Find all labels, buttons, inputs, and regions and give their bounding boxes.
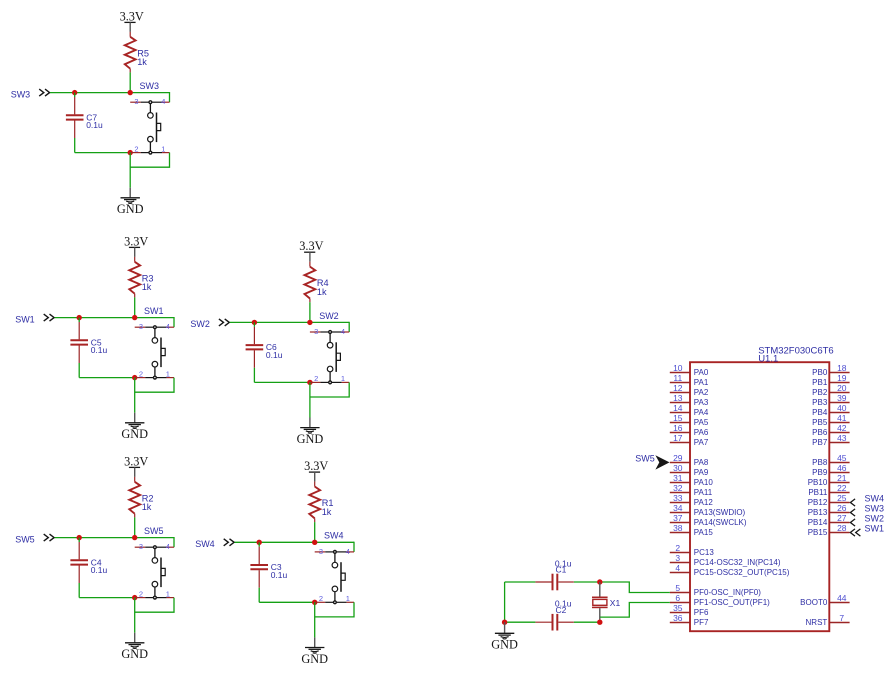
wire R2 to node SW5: [134, 517, 136, 537]
power 3.3V (SW2 pull-up): [299, 239, 323, 262]
svg-text:16: 16: [673, 423, 683, 433]
svg-text:PB14: PB14: [808, 518, 828, 527]
wire R5 to node SW3: [129, 72, 131, 92]
svg-text:1: 1: [166, 369, 170, 378]
svg-text:SW5: SW5: [15, 534, 35, 544]
wire OSC_IN to PF0: [600, 582, 670, 593]
pin 21 PB10: [808, 473, 850, 487]
pin 46 PB9: [812, 463, 849, 477]
svg-text:3.3V: 3.3V: [120, 9, 144, 23]
ground GND (SW4 block): [301, 637, 328, 666]
svg-text:3: 3: [319, 547, 323, 556]
svg-text:13: 13: [673, 393, 683, 403]
resistor R4 1k: [305, 262, 329, 303]
junction at switch SW5 pin 2: [132, 595, 137, 600]
pin 29 PA8: [670, 453, 709, 467]
wire OSC_OUT to PF1: [600, 603, 670, 618]
pin 32 PA11: [670, 483, 713, 497]
svg-text:PC14-OSC32_IN(PC14): PC14-OSC32_IN(PC14): [694, 558, 781, 567]
svg-text:GND: GND: [117, 202, 144, 216]
svg-text:19: 19: [837, 373, 847, 383]
svg-text:3.3V: 3.3V: [124, 454, 148, 468]
svg-text:39: 39: [837, 393, 847, 403]
svg-text:PB5: PB5: [812, 418, 828, 427]
pin 19 PB1: [812, 373, 849, 387]
svg-text:1: 1: [341, 374, 345, 383]
svg-text:PB7: PB7: [812, 438, 828, 447]
junction at switch SW1 pin 2: [132, 375, 137, 380]
svg-text:PB12: PB12: [808, 498, 828, 507]
svg-text:PA12: PA12: [694, 498, 714, 507]
ic U1 STM32F030C6T6: [690, 346, 834, 632]
wire switch SW2 pin 1 loop to ground: [310, 382, 349, 417]
svg-text:GND: GND: [121, 647, 148, 661]
svg-text:PA4: PA4: [694, 408, 709, 417]
svg-text:GND: GND: [297, 432, 324, 446]
capacitor C7 0.1u: [66, 93, 103, 153]
pin 15 PA5: [670, 413, 709, 427]
crystal X1: [592, 582, 620, 622]
svg-text:X1: X1: [610, 598, 621, 608]
svg-text:SW2: SW2: [865, 514, 885, 524]
wire R3 to node SW1: [134, 297, 136, 317]
svg-text:3.3V: 3.3V: [124, 234, 148, 248]
svg-text:26: 26: [837, 503, 847, 513]
svg-text:SW4: SW4: [865, 494, 885, 504]
pin 22 PB11: [808, 483, 849, 497]
svg-text:41: 41: [837, 413, 847, 423]
junction node SW1 at capacitor: [77, 315, 82, 320]
svg-text:PB6: PB6: [812, 428, 828, 437]
pin 4 PC15-OSC32_OUT(PC15): [670, 563, 790, 577]
svg-text:2: 2: [139, 369, 143, 378]
svg-text:PA14(SWCLK): PA14(SWCLK): [694, 518, 747, 527]
pin 28 PB15: [808, 523, 850, 537]
global label SW1 (input): [15, 314, 54, 324]
svg-text:SW3: SW3: [865, 504, 885, 514]
global label SW1 (at PB15): [850, 524, 884, 537]
wire node SW1 horizontal: [55, 317, 175, 327]
svg-text:27: 27: [837, 513, 847, 523]
junction node SW1 at resistor: [132, 315, 137, 320]
junction OSC_IN: [597, 579, 602, 584]
junction node SW5 at resistor: [132, 535, 137, 540]
svg-text:PF6: PF6: [694, 608, 709, 617]
global label SW5 (at PA8): [635, 454, 669, 470]
pin 16 PA6: [670, 423, 709, 437]
pin 6 PF1-OSC_OUT(PF1): [670, 593, 770, 607]
svg-text:4: 4: [166, 542, 170, 551]
svg-text:40: 40: [837, 403, 847, 413]
svg-text:PB15: PB15: [808, 528, 828, 537]
pin 17 PA7: [670, 433, 709, 447]
wire node SW2 horizontal: [230, 322, 350, 332]
pin 41 PB5: [812, 413, 849, 427]
svg-text:38: 38: [673, 523, 683, 533]
svg-text:46: 46: [837, 463, 847, 473]
svg-text:21: 21: [837, 473, 847, 483]
power 3.3V (SW4 pull-up): [304, 459, 328, 482]
svg-text:14: 14: [673, 403, 683, 413]
switch SW5 push button: [135, 526, 174, 600]
svg-text:36: 36: [673, 613, 683, 623]
svg-text:0.1u: 0.1u: [91, 345, 108, 355]
svg-text:15: 15: [673, 413, 683, 423]
svg-text:PB2: PB2: [812, 388, 828, 397]
pin 31 PA10: [670, 473, 714, 487]
svg-text:11: 11: [673, 373, 682, 383]
svg-text:3.3V: 3.3V: [304, 459, 328, 473]
junction node SW4 at resistor: [312, 540, 317, 545]
svg-text:1k: 1k: [142, 282, 152, 292]
svg-text:32: 32: [673, 483, 683, 493]
pin 25 PB12: [808, 493, 850, 507]
junction node SW3 at resistor: [128, 90, 133, 95]
resistor R1 1k: [309, 482, 333, 522]
svg-text:PF0-OSC_IN(PF0): PF0-OSC_IN(PF0): [694, 588, 761, 597]
svg-text:42: 42: [837, 423, 847, 433]
svg-text:PA0: PA0: [694, 368, 709, 377]
svg-text:SW1: SW1: [15, 314, 35, 324]
pin 45 PB8: [812, 453, 849, 467]
svg-text:31: 31: [673, 473, 683, 483]
pin 2 PC13: [670, 543, 715, 557]
pin 44 BOOT0: [800, 593, 849, 607]
capacitor C1 0.1u: [535, 558, 573, 590]
svg-text:4: 4: [341, 327, 345, 336]
svg-text:3: 3: [139, 322, 143, 331]
power 3.3V (SW5 pull-up): [124, 454, 148, 477]
junction node SW4 at capacitor: [257, 540, 262, 545]
svg-text:PB3: PB3: [812, 398, 828, 407]
wire switch SW4 pin 1 loop to ground: [315, 602, 354, 637]
svg-text:25: 25: [837, 493, 847, 503]
power 3.3V (SW3 pull-up): [120, 9, 144, 32]
wire switch SW3 pin 1 loop to ground: [130, 153, 169, 188]
svg-text:3.3V: 3.3V: [299, 239, 323, 253]
pin 30 PA9: [670, 463, 709, 477]
junction node SW2 at capacitor: [252, 320, 257, 325]
global label SW3 (at PB13): [850, 504, 884, 517]
global label SW4 (input): [195, 539, 234, 549]
pin 40 PB4: [812, 403, 849, 417]
svg-text:PA6: PA6: [694, 428, 709, 437]
svg-text:5: 5: [675, 583, 680, 593]
svg-text:PB4: PB4: [812, 408, 828, 417]
power 3.3V (SW1 pull-up): [124, 234, 148, 257]
svg-text:1k: 1k: [142, 502, 152, 512]
wire C3 to switch pin 2: [259, 601, 315, 603]
svg-text:SW4: SW4: [324, 531, 344, 541]
wire C2 row: [505, 621, 600, 623]
pin 39 PB3: [812, 393, 849, 407]
svg-text:28: 28: [837, 523, 847, 533]
svg-text:PA7: PA7: [694, 438, 709, 447]
pin 33 PA12: [670, 493, 714, 507]
svg-text:0.1u: 0.1u: [271, 570, 288, 580]
svg-text:C1: C1: [556, 565, 567, 575]
svg-text:1k: 1k: [317, 287, 327, 297]
svg-text:BOOT0: BOOT0: [800, 598, 828, 607]
svg-text:PF1-OSC_OUT(PF1): PF1-OSC_OUT(PF1): [694, 598, 770, 607]
switch SW3 push button: [130, 81, 169, 155]
svg-text:PB9: PB9: [812, 468, 828, 477]
svg-text:10: 10: [673, 363, 683, 373]
svg-text:SW2: SW2: [190, 319, 210, 329]
svg-text:2: 2: [319, 594, 323, 603]
pin 34 PA13(SWDIO): [670, 503, 746, 517]
ground GND (SW2 block): [297, 418, 324, 447]
capacitor C4 0.1u: [70, 538, 107, 598]
svg-text:18: 18: [837, 363, 847, 373]
svg-text:PC13: PC13: [694, 548, 715, 557]
pin 7 NRST: [806, 613, 850, 627]
svg-text:PB13: PB13: [808, 508, 828, 517]
svg-text:4: 4: [675, 563, 680, 573]
svg-text:22: 22: [837, 483, 847, 493]
pin 20 PB2: [812, 383, 849, 397]
resistor R3 1k: [129, 257, 153, 298]
global label SW4 (at PB12): [850, 494, 884, 507]
ground GND (SW5 block): [121, 633, 148, 662]
global label SW5 (input): [15, 534, 54, 544]
svg-text:4: 4: [166, 322, 170, 331]
switch SW1 push button: [135, 306, 174, 380]
svg-text:2: 2: [139, 589, 143, 598]
svg-text:6: 6: [675, 593, 680, 603]
svg-text:GND: GND: [121, 427, 148, 441]
junction at switch SW2 pin 2: [307, 380, 312, 385]
svg-text:2: 2: [675, 543, 680, 553]
pin 3 PC14-OSC32_IN(PC14): [670, 553, 781, 567]
svg-text:0.1u: 0.1u: [86, 120, 103, 130]
svg-text:GND: GND: [301, 652, 328, 666]
svg-text:SW5: SW5: [144, 526, 164, 536]
wire R4 to node SW2: [309, 302, 311, 322]
svg-text:17: 17: [673, 433, 683, 443]
svg-text:45: 45: [837, 453, 847, 463]
svg-text:1k: 1k: [322, 507, 332, 517]
wire C7 to switch pin 2: [75, 152, 131, 154]
svg-text:C2: C2: [556, 605, 567, 615]
svg-text:PC15-OSC32_OUT(PC15): PC15-OSC32_OUT(PC15): [694, 568, 790, 577]
svg-text:33: 33: [673, 493, 683, 503]
junction at switch SW4 pin 2: [312, 600, 317, 605]
pin 18 PB0: [812, 363, 849, 377]
svg-text:3: 3: [314, 327, 318, 336]
capacitor C6 0.1u: [246, 322, 283, 382]
svg-text:30: 30: [673, 463, 683, 473]
svg-text:PA11: PA11: [694, 488, 713, 497]
svg-text:34: 34: [673, 503, 683, 513]
svg-text:SW4: SW4: [195, 539, 215, 549]
svg-text:SW1: SW1: [865, 524, 885, 534]
svg-text:1k: 1k: [137, 57, 147, 67]
svg-text:PF7: PF7: [694, 618, 709, 627]
capacitor C5 0.1u: [70, 318, 107, 378]
wire C4 to switch pin 2: [79, 597, 135, 599]
svg-text:3: 3: [134, 97, 138, 106]
pin 5 PF0-OSC_IN(PF0): [670, 583, 761, 597]
svg-text:PA1: PA1: [694, 378, 709, 387]
wire C6 to switch pin 2: [254, 381, 310, 383]
svg-text:PB0: PB0: [812, 368, 828, 377]
switch SW2 push button: [310, 311, 349, 385]
junction GND rail: [502, 620, 507, 625]
svg-text:PB8: PB8: [812, 458, 828, 467]
global label SW3 (input): [11, 89, 50, 99]
capacitor C3 0.1u: [250, 542, 287, 602]
svg-text:35: 35: [673, 603, 683, 613]
pin 14 PA4: [670, 403, 709, 417]
wire R1 to node SW4: [314, 522, 316, 542]
wire node SW4 horizontal: [235, 542, 355, 552]
ground GND (crystal): [491, 622, 518, 652]
svg-text:12: 12: [673, 383, 683, 393]
svg-text:7: 7: [839, 613, 844, 623]
svg-text:PB10: PB10: [808, 478, 828, 487]
svg-text:43: 43: [837, 433, 847, 443]
pin 27 PB14: [808, 513, 850, 527]
wire node SW5 horizontal: [55, 537, 175, 547]
svg-text:37: 37: [673, 513, 683, 523]
wire C5 to switch pin 2: [79, 377, 135, 379]
global label SW2 (at PB14): [850, 514, 884, 527]
wire switch SW5 pin 1 loop to ground: [135, 598, 174, 633]
svg-text:SW3: SW3: [11, 89, 31, 99]
svg-text:1: 1: [161, 144, 165, 153]
resistor R5 1k: [125, 32, 149, 73]
wire C1 row: [505, 581, 600, 583]
pin 35 PF6: [670, 603, 709, 617]
svg-text:3: 3: [139, 542, 143, 551]
junction at switch SW3 pin 2: [128, 150, 133, 155]
svg-text:PB1: PB1: [812, 378, 828, 387]
svg-text:PA5: PA5: [694, 418, 709, 427]
svg-text:PB11: PB11: [808, 488, 828, 497]
svg-text:PA15: PA15: [694, 528, 714, 537]
junction OSC_OUT: [597, 620, 602, 625]
wire node SW3 horizontal: [50, 92, 170, 102]
junction node SW3 at capacitor: [72, 90, 77, 95]
pin 38 PA15: [670, 523, 714, 537]
svg-text:SW5: SW5: [635, 454, 655, 464]
pin 43 PB7: [812, 433, 849, 447]
svg-text:0.1u: 0.1u: [91, 565, 108, 575]
svg-text:3: 3: [675, 553, 680, 563]
pin 11 PA1: [670, 373, 709, 387]
wire GND rail left: [504, 582, 506, 622]
svg-text:PA9: PA9: [694, 468, 709, 477]
svg-text:0.1u: 0.1u: [266, 350, 283, 360]
ground GND (SW3 block): [117, 188, 144, 217]
pin 37 PA14(SWCLK): [670, 513, 747, 527]
svg-text:SW2: SW2: [319, 311, 339, 321]
svg-text:2: 2: [314, 374, 318, 383]
svg-text:44: 44: [837, 593, 847, 603]
capacitor C2 0.1u: [535, 599, 573, 631]
svg-text:20: 20: [837, 383, 847, 393]
svg-text:SW1: SW1: [144, 306, 164, 316]
svg-text:2: 2: [134, 144, 138, 153]
wire switch SW1 pin 1 loop to ground: [135, 378, 174, 413]
svg-text:29: 29: [673, 453, 683, 463]
svg-text:U1.1: U1.1: [758, 353, 778, 364]
svg-text:SW3: SW3: [140, 81, 160, 91]
svg-text:1: 1: [346, 594, 350, 603]
svg-text:PA8: PA8: [694, 458, 709, 467]
svg-text:GND: GND: [491, 638, 518, 652]
global label SW2 (input): [190, 319, 229, 329]
junction node SW5 at capacitor: [77, 535, 82, 540]
svg-text:PA3: PA3: [694, 398, 709, 407]
pin 10 PA0: [670, 363, 709, 377]
ground GND (SW1 block): [121, 413, 148, 442]
pin 26 PB13: [808, 503, 850, 517]
svg-text:4: 4: [346, 547, 350, 556]
switch SW4 push button: [315, 531, 354, 605]
svg-text:4: 4: [161, 97, 165, 106]
junction node SW2 at resistor: [307, 320, 312, 325]
pin 13 PA3: [670, 393, 709, 407]
pin 36 PF7: [670, 613, 709, 627]
pin 42 PB6: [812, 423, 849, 437]
svg-text:PA2: PA2: [694, 388, 709, 397]
pin 12 PA2: [670, 383, 709, 397]
resistor R2 1k: [129, 477, 153, 518]
svg-text:NRST: NRST: [806, 618, 828, 627]
svg-text:PA13(SWDIO): PA13(SWDIO): [694, 508, 746, 517]
svg-text:PA10: PA10: [694, 478, 714, 487]
svg-text:1: 1: [166, 589, 170, 598]
